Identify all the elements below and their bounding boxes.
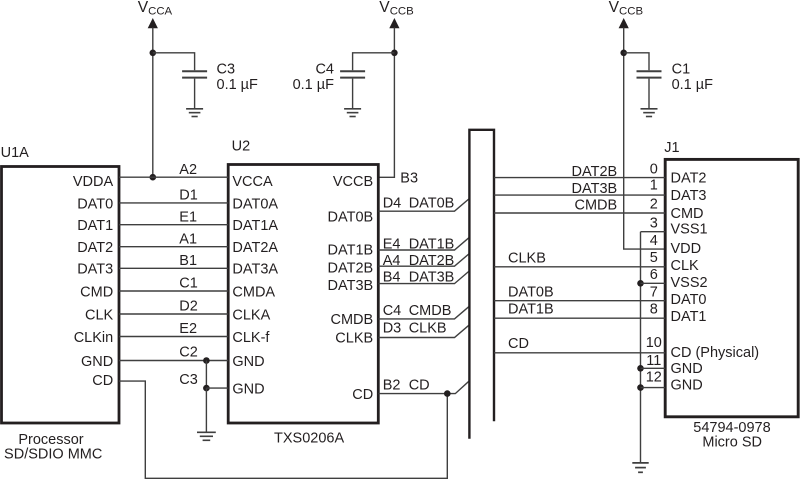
- svg-text:CMDA: CMDA: [232, 284, 275, 300]
- svg-text:C1: C1: [672, 61, 691, 77]
- voltage translator U2: [228, 165, 378, 424]
- svg-text:Micro SD: Micro SD: [702, 435, 762, 451]
- svg-text:C1: C1: [179, 276, 198, 292]
- wire VDDA net (U1A to U2): [119, 176, 228, 178]
- junction dot VCCA/VDDA wire: [150, 174, 157, 181]
- svg-text:CLK: CLK: [85, 307, 114, 323]
- wire DAT2B (connector to J1): [494, 177, 665, 179]
- svg-text:DAT1: DAT1: [77, 218, 113, 234]
- svg-text:DAT3B: DAT3B: [572, 181, 618, 197]
- wire GND to U2 pin C3: [206, 387, 228, 389]
- wire VSS1 stub: [641, 231, 666, 233]
- svg-text:DAT3: DAT3: [671, 188, 707, 204]
- svg-text:C4: C4: [383, 303, 402, 319]
- svg-text:6: 6: [650, 267, 658, 283]
- svg-text:D4: D4: [383, 196, 402, 212]
- wire VCCB rail vertical to J1 VDD: [624, 28, 666, 250]
- wire VCCB rail vertical to U2 pin B3: [378, 28, 394, 178]
- wire GND vertical C2 to C3: [205, 361, 207, 389]
- svg-text:0: 0: [650, 161, 658, 177]
- svg-text:DAT0B: DAT0B: [328, 209, 374, 225]
- svg-text:E2: E2: [179, 321, 197, 337]
- svg-text:C4: C4: [315, 61, 334, 77]
- svg-text:GND: GND: [81, 354, 113, 370]
- svg-text:CLK-f: CLK-f: [232, 330, 270, 346]
- svg-text:GND: GND: [232, 382, 264, 398]
- svg-text:DAT2B: DAT2B: [328, 261, 374, 277]
- svg-text:CLKB: CLKB: [409, 320, 447, 336]
- svg-text:GND: GND: [671, 377, 703, 393]
- wire GND pin 11 stub: [641, 367, 666, 369]
- svg-text:A1: A1: [179, 231, 197, 247]
- junction dot VSS2: [637, 280, 644, 287]
- svg-text:DAT0: DAT0: [671, 292, 707, 308]
- svg-text:CD (Physical): CD (Physical): [671, 345, 760, 361]
- wire C4 to ground: [352, 79, 354, 109]
- wire CLKin net (U1A to U2): [119, 336, 228, 338]
- wire VCCA to C3: [153, 53, 195, 70]
- svg-text:CLK: CLK: [671, 258, 700, 274]
- ground (U2 GND): [197, 432, 216, 440]
- processor U1A: [2, 167, 120, 424]
- wire DAT2 net (U1A to U2): [119, 246, 228, 248]
- svg-text:D3: D3: [383, 320, 402, 336]
- svg-text:U1A: U1A: [1, 145, 30, 161]
- wire DAT3B (U2 to connector): [378, 271, 469, 283]
- svg-text:CLKA: CLKA: [232, 307, 270, 323]
- svg-text:VDD: VDD: [671, 241, 702, 257]
- wire DAT2B (U2 to connector): [378, 254, 469, 266]
- ground (C4): [344, 109, 361, 117]
- svg-text:CLKB: CLKB: [508, 250, 546, 266]
- wire CD (connector to J1): [494, 352, 665, 354]
- svg-text:DAT2B: DAT2B: [572, 164, 618, 180]
- wire C1 to ground: [648, 79, 650, 109]
- svg-text:VSS2: VSS2: [671, 275, 708, 291]
- ground (C1): [641, 109, 658, 117]
- svg-text:1: 1: [650, 178, 658, 194]
- svg-text:CMDB: CMDB: [330, 312, 373, 328]
- wire DAT1B (connector to J1): [494, 317, 665, 319]
- svg-text:DAT3B: DAT3B: [409, 270, 455, 286]
- svg-text:DAT2: DAT2: [77, 240, 113, 256]
- wire CD net (U2 pin B2 to connector): [378, 381, 469, 393]
- svg-text:DAT3A: DAT3A: [232, 262, 278, 278]
- svg-text:GND: GND: [232, 354, 264, 370]
- svg-text:SD/SDIO MMC: SD/SDIO MMC: [4, 447, 102, 463]
- svg-text:E1: E1: [179, 209, 197, 225]
- svg-text:DAT2A: DAT2A: [232, 240, 278, 256]
- ground (C3): [186, 109, 203, 117]
- wire CMDB (U2 to connector): [378, 307, 469, 319]
- junction dot GND pin 12: [637, 384, 644, 391]
- svg-text:0.1 µF: 0.1 µF: [293, 77, 335, 93]
- svg-text:C2: C2: [179, 344, 198, 360]
- wire CLKB (connector to J1): [494, 266, 665, 268]
- svg-text:2: 2: [650, 197, 658, 213]
- svg-text:C3: C3: [179, 372, 198, 388]
- ground (J1): [632, 463, 648, 472]
- svg-text:DAT1A: DAT1A: [232, 218, 278, 234]
- svg-text:VCCB: VCCB: [333, 174, 373, 190]
- svg-text:C3: C3: [217, 61, 236, 77]
- svg-text:10: 10: [646, 335, 662, 351]
- svg-text:DAT3: DAT3: [77, 262, 113, 278]
- svg-text:5: 5: [650, 250, 658, 266]
- svg-text:DAT3B: DAT3B: [328, 278, 374, 294]
- capacitor C4: [340, 71, 365, 77]
- junction dot GND C3: [203, 385, 210, 392]
- wire DAT1B (U2 to connector): [378, 238, 469, 250]
- svg-text:54794-0978: 54794-0978: [693, 420, 770, 436]
- wire DAT0B (connector to J1): [494, 300, 665, 302]
- junction dot GND C2: [203, 357, 210, 364]
- svg-text:CLKin: CLKin: [74, 330, 114, 346]
- wire C3 to ground: [194, 79, 196, 109]
- wire DAT3B (connector to J1): [494, 194, 665, 196]
- svg-text:DAT1B: DAT1B: [409, 237, 455, 253]
- wire GND pin 12 stub: [641, 387, 666, 389]
- svg-text:CMDB: CMDB: [409, 303, 452, 319]
- svg-text:B4: B4: [383, 270, 401, 286]
- svg-text:J1: J1: [664, 140, 679, 156]
- junction dot GND pin 11: [637, 365, 644, 372]
- wire CMD net (U1A to U2): [119, 290, 228, 292]
- svg-text:B1: B1: [179, 253, 197, 269]
- junction dot VCCB/C1: [620, 50, 627, 57]
- capacitor C1: [637, 71, 662, 77]
- wire VSS vertical to ground: [640, 232, 642, 463]
- svg-text:CD: CD: [508, 336, 529, 352]
- svg-text:3: 3: [650, 215, 658, 231]
- svg-text:DAT0A: DAT0A: [232, 196, 278, 212]
- svg-text:DAT0B: DAT0B: [508, 284, 554, 300]
- svg-text:DAT1: DAT1: [671, 309, 707, 325]
- wire VSS2 stub: [641, 282, 666, 284]
- svg-text:DAT1B: DAT1B: [328, 243, 374, 259]
- svg-text:VSS1: VSS1: [671, 221, 708, 237]
- power symbol VCCB (right): [609, 0, 643, 28]
- svg-text:D1: D1: [179, 188, 198, 204]
- svg-text:0.1 µF: 0.1 µF: [672, 77, 714, 93]
- wire GND down to ground symbol: [205, 388, 207, 432]
- svg-text:VCCA: VCCA: [232, 174, 273, 190]
- svg-text:TXS0206A: TXS0206A: [274, 431, 344, 447]
- svg-text:4: 4: [650, 233, 658, 249]
- svg-text:DAT1B: DAT1B: [508, 302, 554, 318]
- svg-text:8: 8: [650, 302, 658, 318]
- svg-text:0.1 µF: 0.1 µF: [217, 77, 259, 93]
- svg-text:CMD: CMD: [671, 206, 704, 222]
- svg-text:CLKB: CLKB: [335, 331, 373, 347]
- svg-text:DAT2B: DAT2B: [409, 253, 455, 269]
- svg-text:GND: GND: [671, 361, 703, 377]
- wire VCCB to C4: [353, 53, 395, 70]
- svg-text:D2: D2: [179, 299, 198, 315]
- svg-text:7: 7: [650, 284, 658, 300]
- junction dot CD: [444, 390, 451, 397]
- wire DAT3 net (U1A to U2): [119, 267, 228, 269]
- svg-text:DAT0: DAT0: [77, 196, 113, 212]
- svg-text:U2: U2: [232, 139, 251, 155]
- svg-text:VDDA: VDDA: [73, 174, 114, 190]
- connector J1: [665, 159, 798, 416]
- wire CMDB (connector to J1): [494, 212, 665, 214]
- svg-text:11: 11: [646, 353, 661, 369]
- wire DAT0 net (U1A to U2): [119, 202, 228, 204]
- wire CLK net (U1A to U2): [119, 313, 228, 315]
- junction dot VCCB/C4: [391, 50, 398, 57]
- wire DAT0B (U2 to connector): [378, 199, 469, 211]
- svg-text:DAT0B: DAT0B: [409, 196, 455, 212]
- svg-text:CD: CD: [409, 378, 430, 394]
- svg-text:CD: CD: [352, 387, 373, 403]
- wire VCCA rail vertical: [152, 28, 154, 178]
- wire CD net (U1A CD around bottom): [119, 381, 447, 478]
- card connector bar: [469, 130, 494, 439]
- wire VCCB to C1: [624, 53, 649, 70]
- svg-text:DAT2: DAT2: [671, 171, 707, 187]
- svg-text:CMD: CMD: [80, 284, 113, 300]
- power symbol VCCB (left): [379, 0, 413, 28]
- svg-text:12: 12: [646, 370, 662, 386]
- wire CLKB (U2 to connector): [378, 325, 469, 337]
- svg-text:B2: B2: [383, 378, 401, 394]
- wire DAT1 net (U1A to U2): [119, 224, 228, 226]
- svg-text:E4: E4: [383, 237, 401, 253]
- capacitor C3: [182, 71, 207, 77]
- svg-text:CMDB: CMDB: [574, 197, 617, 213]
- power symbol VCCA: [138, 0, 173, 28]
- junction dot VCCA/C3: [150, 50, 157, 57]
- svg-text:CD: CD: [92, 373, 113, 389]
- svg-text:A4: A4: [383, 253, 401, 269]
- wire GND net (U1A to U2 pin C2): [119, 360, 228, 362]
- svg-text:B3: B3: [400, 170, 418, 186]
- svg-text:A2: A2: [179, 162, 197, 178]
